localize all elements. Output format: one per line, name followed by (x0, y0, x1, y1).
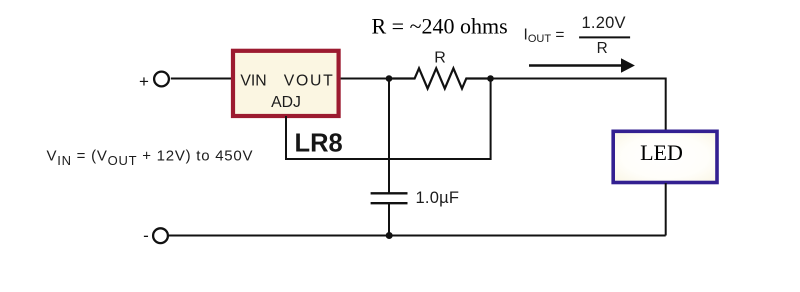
fraction bar of IOUT equation (579, 36, 630, 38)
svg-text:R = ~240 ohms: R = ~240 ohms (372, 14, 508, 39)
wire: ADJ pin down (285, 116, 287, 159)
resistor R (389, 68, 491, 88)
svg-text:R: R (597, 40, 608, 57)
arrow: IOUT direction (529, 58, 635, 73)
label IOUT equation (524, 14, 626, 57)
capacitor C1 plates (371, 193, 408, 203)
wire: capacitor bottom plate to node C (388, 203, 390, 235)
terminal - (negative input) (143, 226, 168, 245)
svg-text:LR8: LR8 (295, 129, 343, 157)
wire: LED bottom to bottom rail (665, 183, 667, 236)
svg-text:1.20V: 1.20V (582, 14, 626, 32)
terminal + (positive input) (139, 72, 169, 91)
svg-text:IOUT =: IOUT = (524, 26, 565, 45)
wire: + terminal to VIN pin (171, 78, 231, 80)
svg-text:+: + (139, 72, 149, 91)
bottom rail wire (169, 235, 666, 237)
svg-text:VIN = (VOUT + 12V) to 450V: VIN = (VOUT + 12V) to 450V (47, 148, 254, 169)
LED box D1 (613, 131, 717, 182)
wire: node B down to ADJ feedback (490, 79, 492, 161)
svg-text:LED: LED (640, 140, 683, 165)
node C (junction dot on bottom rail) (386, 232, 393, 239)
svg-text:VIN: VIN (240, 72, 266, 89)
svg-text:-: - (143, 226, 149, 245)
svg-text:1.0µF: 1.0µF (416, 189, 460, 207)
wire: ADJ feedback horizontal run (285, 158, 491, 160)
wire: node A down to capacitor top plate (388, 79, 390, 194)
regulator U1 LR8 body (233, 51, 339, 116)
node B (junction dot at resistor right) (487, 75, 494, 82)
wire: VOUT pin to node A (341, 78, 389, 80)
node A (junction dot at resistor left) (386, 75, 393, 82)
svg-text:ADJ: ADJ (271, 94, 301, 111)
svg-text:R: R (434, 50, 446, 67)
wire: node B to LED top corner (491, 79, 666, 132)
